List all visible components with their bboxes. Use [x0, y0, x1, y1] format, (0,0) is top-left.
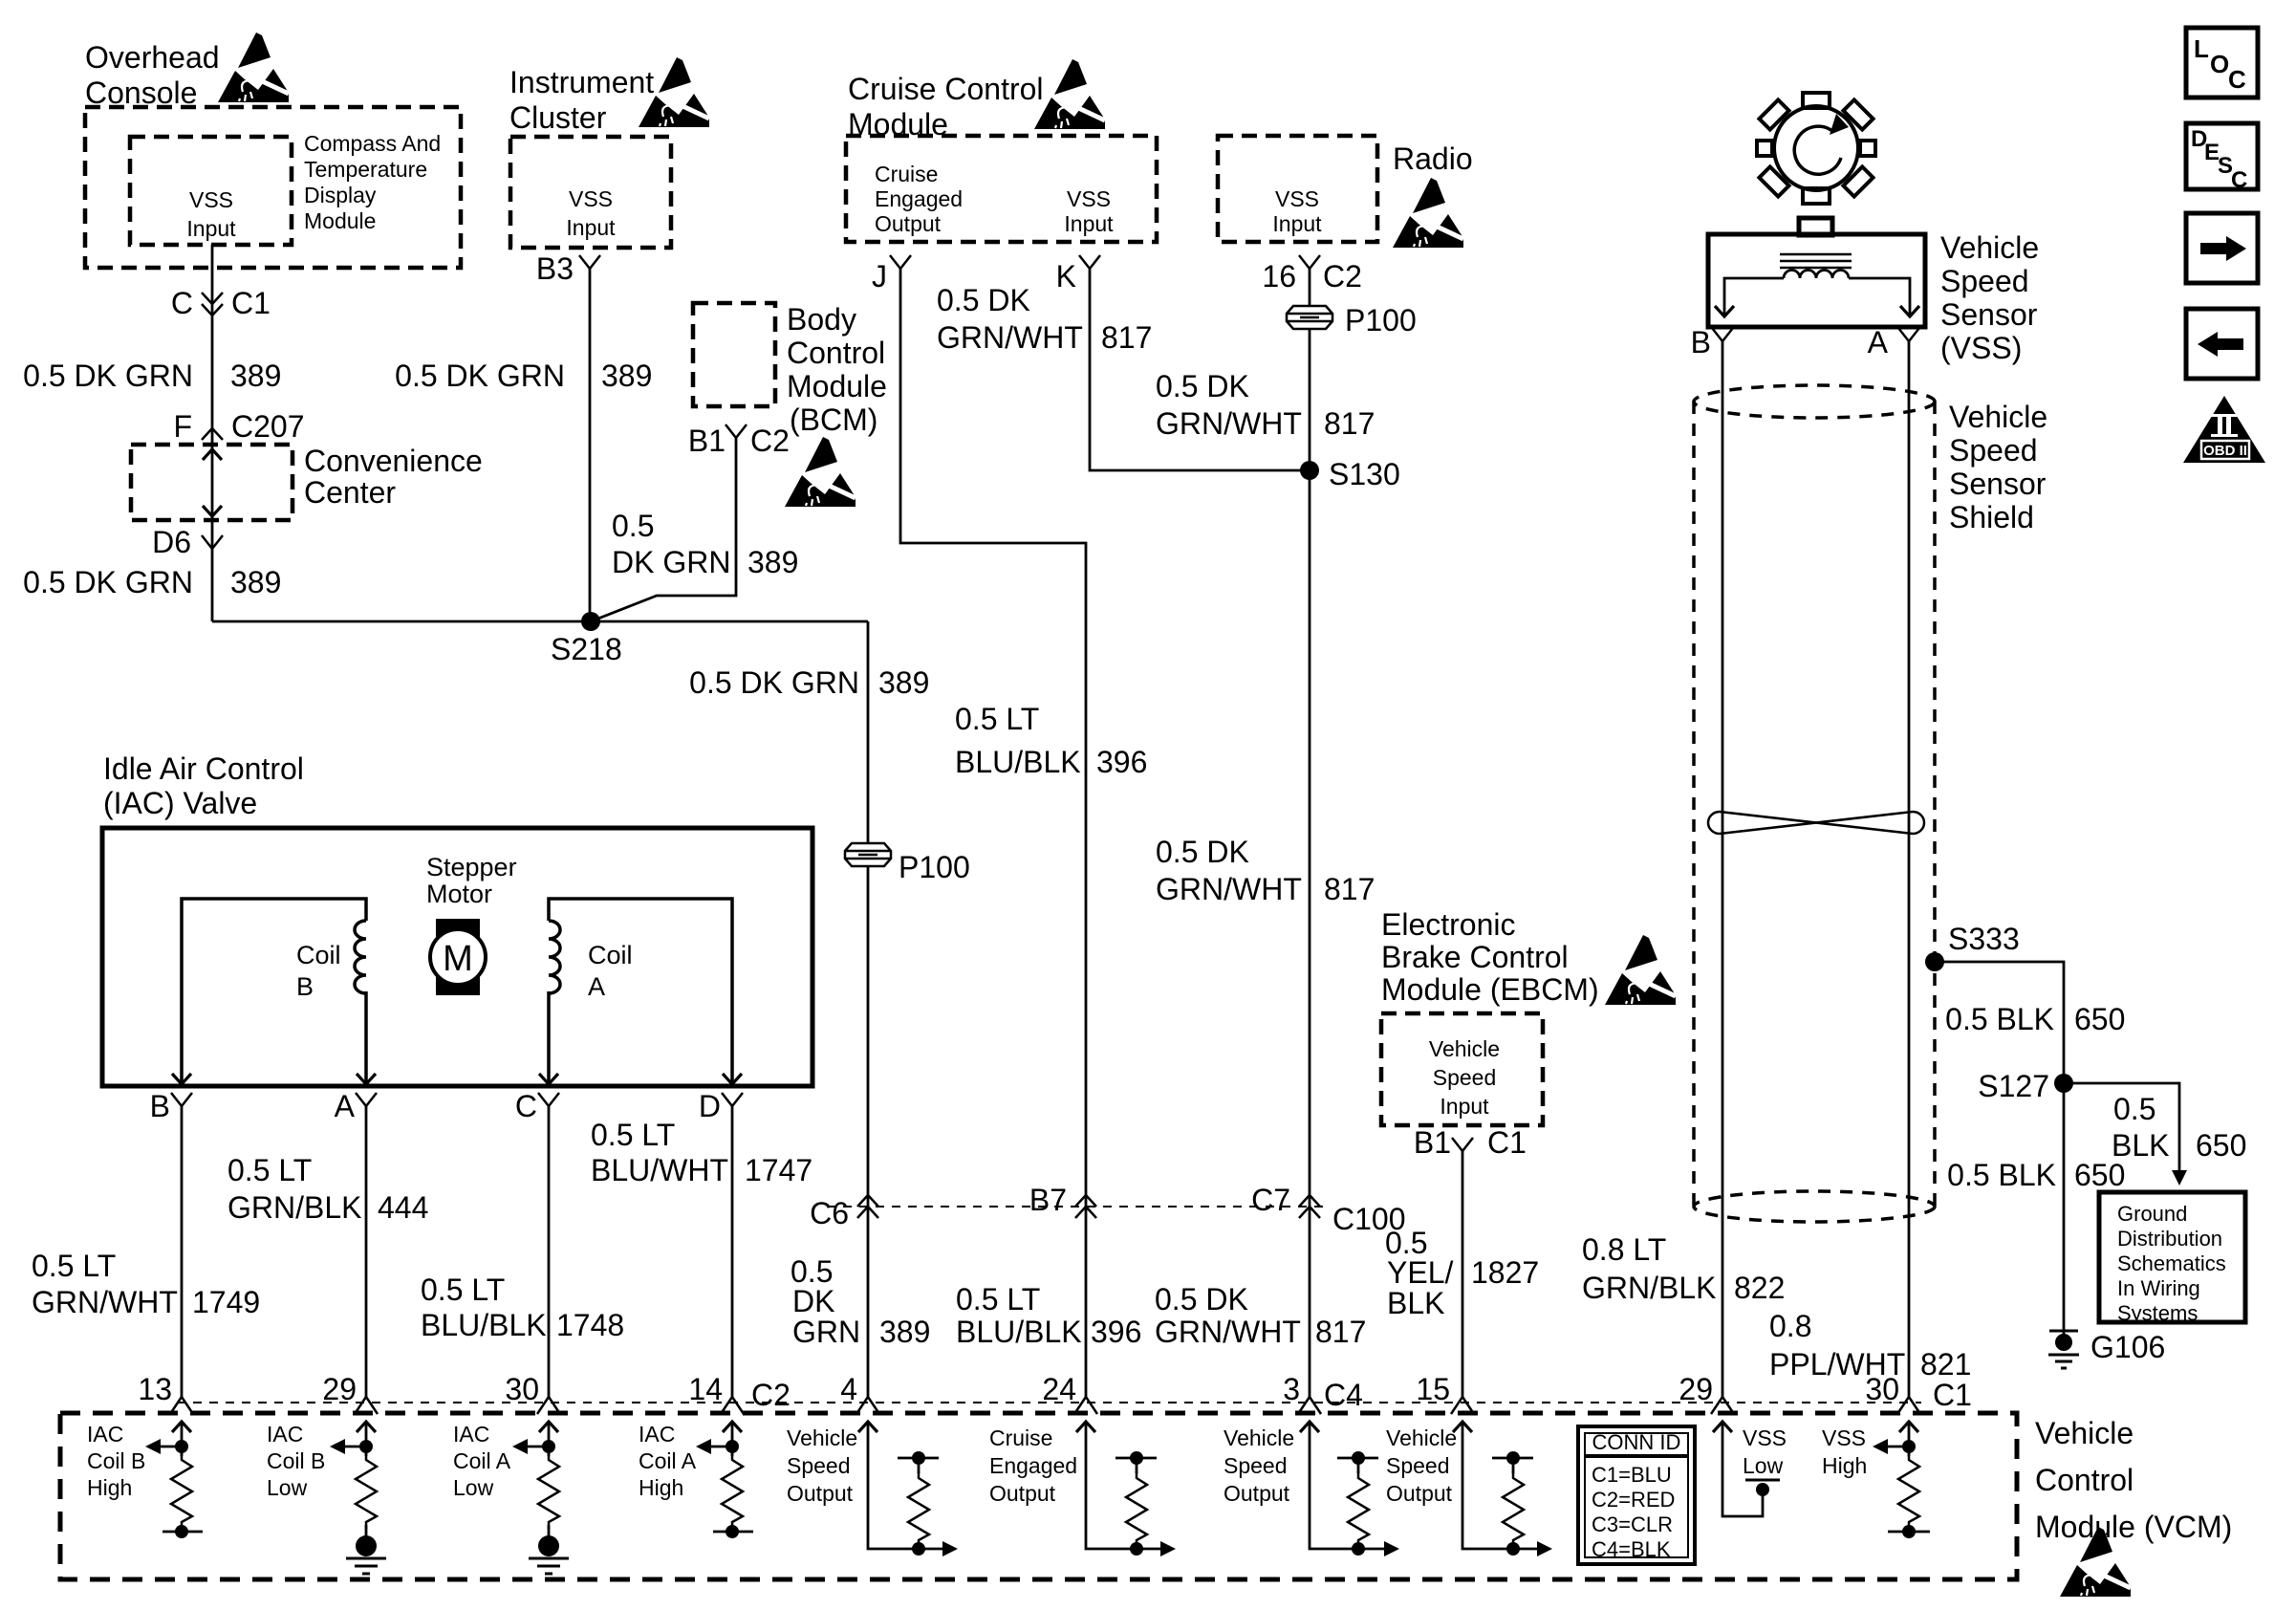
svg-text:Schematics: Schematics [2117, 1251, 2226, 1275]
svg-text:Ground: Ground [2117, 1202, 2187, 1226]
svg-text:817: 817 [1324, 872, 1375, 906]
svg-text:C207: C207 [231, 409, 305, 444]
svg-text:30: 30 [505, 1372, 539, 1406]
svg-text:In Wiring: In Wiring [2117, 1276, 2200, 1300]
svg-text:B: B [296, 972, 314, 1001]
svg-text:O: O [2210, 50, 2229, 78]
svg-text:14: 14 [688, 1372, 723, 1406]
svg-text:Speed: Speed [1224, 1453, 1288, 1478]
svg-text:Body: Body [787, 302, 856, 337]
svg-text:A: A [588, 972, 605, 1001]
svg-text:0.5 BLK: 0.5 BLK [1945, 1002, 2054, 1036]
svg-text:Radio: Radio [1393, 141, 1473, 176]
svg-text:C7: C7 [1251, 1183, 1290, 1217]
svg-text:0.8: 0.8 [1769, 1309, 1811, 1343]
svg-text:VSS: VSS [1743, 1425, 1787, 1450]
svg-text:BLU/WHT: BLU/WHT [591, 1153, 728, 1187]
svg-text:A: A [335, 1089, 356, 1123]
svg-text:Coil B: Coil B [267, 1448, 325, 1473]
svg-text:0.5 DK GRN: 0.5 DK GRN [23, 565, 193, 599]
svg-text:Output: Output [787, 1481, 854, 1506]
svg-text:S218: S218 [551, 632, 622, 666]
svg-text:C: C [515, 1089, 537, 1123]
svg-text:Temperature: Temperature [304, 157, 427, 182]
svg-text:Convenience: Convenience [304, 444, 483, 478]
svg-text:VSS: VSS [569, 186, 613, 211]
svg-text:GRN/BLK: GRN/BLK [1582, 1271, 1716, 1305]
svg-text:GRN/WHT: GRN/WHT [1155, 1315, 1301, 1349]
svg-text:VSS: VSS [1275, 186, 1319, 211]
svg-text:Speed: Speed [1386, 1453, 1450, 1478]
svg-text:Display: Display [304, 183, 377, 207]
svg-text:GRN/WHT: GRN/WHT [1156, 406, 1302, 441]
svg-text:396: 396 [1091, 1315, 1141, 1349]
svg-text:29: 29 [1679, 1372, 1713, 1406]
svg-text:S127: S127 [1978, 1069, 2049, 1103]
svg-text:Input: Input [1272, 211, 1322, 236]
svg-text:817: 817 [1315, 1315, 1366, 1349]
svg-text:VSS: VSS [1822, 1425, 1866, 1450]
svg-text:650: 650 [2074, 1158, 2125, 1192]
svg-text:VSS: VSS [189, 187, 233, 212]
svg-text:Coil: Coil [296, 941, 341, 969]
svg-text:0.5 DK GRN: 0.5 DK GRN [23, 359, 193, 393]
svg-text:BLU/BLK: BLU/BLK [956, 1315, 1082, 1349]
svg-text:389: 389 [747, 545, 798, 579]
svg-text:0.5: 0.5 [612, 509, 654, 543]
svg-text:Input: Input [1064, 211, 1114, 236]
svg-text:389: 389 [878, 665, 929, 700]
svg-text:30: 30 [1865, 1372, 1899, 1406]
svg-text:Input: Input [566, 215, 616, 240]
svg-text:0.5 DK GRN: 0.5 DK GRN [395, 359, 565, 393]
svg-text:VSS: VSS [1067, 186, 1111, 211]
svg-text:Coil: Coil [588, 941, 633, 969]
svg-text:Idle Air Control: Idle Air Control [103, 751, 304, 786]
svg-text:Vehicle: Vehicle [787, 1425, 857, 1450]
svg-text:Console: Console [85, 76, 197, 110]
svg-text:389: 389 [601, 359, 652, 393]
svg-text:C: C [2228, 65, 2246, 94]
svg-text:444: 444 [378, 1190, 428, 1225]
svg-text:Electronic: Electronic [1381, 907, 1516, 942]
svg-text:Output: Output [1386, 1481, 1453, 1506]
svg-text:C: C [171, 286, 193, 320]
svg-text:Vehicle: Vehicle [1386, 1425, 1457, 1450]
svg-text:L: L [2194, 34, 2209, 63]
svg-text:Coil A: Coil A [453, 1448, 511, 1473]
svg-text:0.5 BLK: 0.5 BLK [1947, 1158, 2056, 1192]
svg-text:GRN/BLK: GRN/BLK [227, 1190, 361, 1225]
svg-text:0.5 DK: 0.5 DK [937, 283, 1030, 317]
svg-text:Speed: Speed [1940, 264, 2029, 298]
svg-text:Vehicle: Vehicle [2035, 1416, 2134, 1450]
svg-text:Overhead: Overhead [85, 40, 220, 75]
svg-text:C1: C1 [1487, 1125, 1527, 1160]
svg-text:B: B [1691, 325, 1711, 359]
svg-text:S130: S130 [1329, 457, 1400, 491]
svg-text:1748: 1748 [556, 1308, 624, 1342]
svg-text:D6: D6 [152, 525, 191, 559]
svg-text:Cruise: Cruise [989, 1425, 1052, 1450]
svg-text:C2=RED: C2=RED [1592, 1488, 1675, 1512]
svg-text:Vehicle: Vehicle [1224, 1425, 1294, 1450]
svg-text:389: 389 [879, 1315, 930, 1349]
svg-text:C1: C1 [1933, 1378, 1972, 1412]
svg-text:Speed: Speed [1433, 1065, 1497, 1090]
svg-text:High: High [639, 1475, 683, 1500]
svg-text:0.8 LT: 0.8 LT [1582, 1232, 1666, 1267]
svg-text:821: 821 [1920, 1347, 1971, 1382]
svg-text:DK GRN: DK GRN [612, 545, 730, 579]
svg-text:389: 389 [230, 359, 281, 393]
svg-text:J: J [872, 259, 887, 294]
svg-text:IAC: IAC [87, 1422, 123, 1447]
svg-text:B1: B1 [688, 424, 726, 458]
svg-text:650: 650 [2074, 1002, 2125, 1036]
svg-text:Stepper: Stepper [426, 853, 517, 881]
svg-text:Cluster: Cluster [509, 100, 607, 135]
svg-text:Motor: Motor [426, 880, 492, 908]
svg-text:G106: G106 [2090, 1330, 2165, 1364]
svg-text:Input: Input [1440, 1094, 1489, 1119]
svg-text:13: 13 [138, 1372, 172, 1406]
svg-text:S333: S333 [1948, 922, 2020, 956]
svg-text:0.5 LT: 0.5 LT [421, 1273, 505, 1307]
svg-text:BLU/BLK: BLU/BLK [955, 745, 1081, 779]
svg-text:0.5 LT: 0.5 LT [956, 1282, 1040, 1316]
svg-text:Control: Control [2035, 1463, 2134, 1497]
svg-text:0.5 LT: 0.5 LT [32, 1249, 116, 1283]
svg-text:IAC: IAC [639, 1422, 675, 1447]
svg-text:Coil B: Coil B [87, 1448, 145, 1473]
svg-text:Control: Control [787, 336, 885, 370]
svg-text:Systems: Systems [2117, 1301, 2198, 1325]
svg-text:D: D [699, 1089, 721, 1123]
svg-text:M: M [443, 939, 473, 979]
svg-text:Module (VCM): Module (VCM) [2035, 1510, 2232, 1544]
svg-text:3: 3 [1283, 1372, 1300, 1406]
svg-text:Module (EBCM): Module (EBCM) [1381, 972, 1599, 1007]
svg-text:C4: C4 [1324, 1378, 1363, 1412]
svg-text:Brake Control: Brake Control [1381, 940, 1569, 974]
svg-text:0.5 DK GRN: 0.5 DK GRN [689, 665, 859, 700]
svg-text:1747: 1747 [745, 1153, 812, 1187]
svg-text:817: 817 [1101, 320, 1152, 355]
svg-text:B3: B3 [536, 251, 574, 286]
svg-text:BLU/BLK: BLU/BLK [421, 1308, 547, 1342]
svg-text:C3=CLR: C3=CLR [1592, 1512, 1673, 1536]
svg-text:Engaged: Engaged [989, 1453, 1077, 1478]
svg-text:K: K [1056, 259, 1076, 294]
svg-text:Cruise: Cruise [875, 162, 938, 186]
svg-text:GRN/WHT: GRN/WHT [32, 1285, 178, 1319]
svg-text:0.5 DK: 0.5 DK [1156, 369, 1249, 403]
svg-text:P100: P100 [1345, 303, 1417, 337]
svg-text:C: C [2231, 167, 2247, 193]
svg-text:0.5 DK: 0.5 DK [1156, 835, 1249, 869]
svg-text:389: 389 [230, 565, 281, 599]
svg-text:0.5 DK: 0.5 DK [1155, 1282, 1248, 1316]
svg-text:C2: C2 [751, 1378, 791, 1412]
svg-text:Module: Module [304, 208, 376, 233]
svg-text:C4=BLK: C4=BLK [1592, 1537, 1671, 1561]
svg-text:GRN/WHT: GRN/WHT [1156, 872, 1302, 906]
svg-text:High: High [87, 1475, 132, 1500]
svg-text:396: 396 [1096, 745, 1147, 779]
svg-text:B7: B7 [1029, 1183, 1067, 1217]
svg-text:Low: Low [267, 1475, 308, 1500]
svg-text:Coil A: Coil A [639, 1448, 697, 1473]
svg-text:Low: Low [453, 1475, 494, 1500]
svg-text:Distribution: Distribution [2117, 1227, 2222, 1251]
svg-text:IAC: IAC [267, 1422, 303, 1447]
svg-text:C1: C1 [231, 286, 271, 320]
svg-text:Cruise Control: Cruise Control [848, 72, 1044, 106]
svg-text:Sensor: Sensor [1940, 297, 2038, 332]
svg-text:0.5 LT: 0.5 LT [955, 702, 1039, 736]
svg-text:(VSS): (VSS) [1940, 331, 2022, 365]
svg-text:OBD II: OBD II [2203, 443, 2247, 459]
svg-text:Sensor: Sensor [1949, 467, 2047, 501]
svg-text:4: 4 [840, 1372, 857, 1406]
svg-text:Compass And: Compass And [304, 131, 441, 156]
svg-text:B1: B1 [1414, 1125, 1451, 1160]
svg-text:0.5 LT: 0.5 LT [591, 1118, 675, 1152]
svg-text:650: 650 [2196, 1128, 2246, 1163]
svg-text:YEL/: YEL/ [1387, 1255, 1453, 1290]
svg-text:Output: Output [875, 211, 942, 236]
svg-text:B: B [150, 1089, 170, 1123]
svg-text:F: F [173, 409, 192, 444]
svg-text:Shield: Shield [1949, 500, 2034, 534]
svg-text:(BCM): (BCM) [790, 402, 877, 437]
svg-text:16: 16 [1262, 259, 1296, 294]
svg-text:1749: 1749 [192, 1285, 260, 1319]
svg-text:C2: C2 [750, 424, 790, 458]
svg-text:CONN ID: CONN ID [1592, 1430, 1681, 1454]
svg-text:Output: Output [989, 1481, 1056, 1506]
svg-text:Center: Center [304, 475, 396, 510]
svg-text:817: 817 [1324, 406, 1375, 441]
svg-text:Low: Low [1743, 1453, 1784, 1478]
svg-text:DK: DK [792, 1284, 834, 1318]
svg-text:Speed: Speed [787, 1453, 851, 1478]
svg-text:Instrument: Instrument [509, 65, 654, 99]
svg-text:Vehicle: Vehicle [1940, 230, 2039, 265]
svg-text:C6: C6 [810, 1196, 849, 1230]
svg-text:0.5: 0.5 [2113, 1092, 2155, 1126]
svg-text:15: 15 [1416, 1372, 1450, 1406]
svg-text:Input: Input [186, 216, 236, 241]
svg-text:GRN: GRN [792, 1315, 860, 1349]
svg-text:1827: 1827 [1471, 1255, 1539, 1290]
svg-text:Module: Module [787, 369, 887, 403]
svg-text:Speed: Speed [1949, 433, 2038, 468]
svg-text:24: 24 [1042, 1372, 1076, 1406]
svg-text:(IAC) Valve: (IAC) Valve [103, 786, 257, 820]
svg-text:Output: Output [1224, 1481, 1290, 1506]
svg-text:A: A [1868, 325, 1889, 359]
svg-text:P100: P100 [899, 850, 970, 884]
svg-text:Vehicle: Vehicle [1949, 400, 2047, 434]
svg-text:C1=BLU: C1=BLU [1592, 1463, 1672, 1487]
svg-text:0.5 LT: 0.5 LT [227, 1153, 312, 1187]
svg-text:High: High [1822, 1453, 1867, 1478]
svg-text:822: 822 [1734, 1271, 1785, 1305]
svg-text:Vehicle: Vehicle [1429, 1036, 1500, 1061]
svg-text:GRN/WHT: GRN/WHT [937, 320, 1083, 355]
svg-text:C2: C2 [1323, 259, 1362, 294]
svg-text:IAC: IAC [453, 1422, 489, 1447]
svg-text:BLK: BLK [1387, 1286, 1444, 1320]
svg-text:Engaged: Engaged [875, 186, 963, 211]
svg-text:29: 29 [322, 1372, 357, 1406]
